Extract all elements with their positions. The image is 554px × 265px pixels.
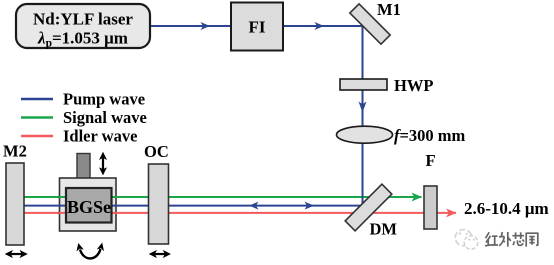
svg-text:Signal wave: Signal wave	[63, 108, 147, 127]
svg-text:OC: OC	[144, 142, 169, 161]
svg-text:Nd:YLF laser: Nd:YLF laser	[33, 10, 133, 29]
svg-text:HWP: HWP	[394, 76, 433, 95]
svg-text:f=300 mm: f=300 mm	[394, 126, 466, 145]
svg-text:F: F	[425, 151, 435, 170]
svg-text:M2: M2	[3, 142, 27, 161]
svg-text:M1: M1	[377, 0, 401, 19]
svg-text:Idler wave: Idler wave	[63, 127, 137, 146]
svg-text:2.6-10.4 μm: 2.6-10.4 μm	[464, 199, 549, 218]
svg-text:Pump wave: Pump wave	[63, 90, 145, 109]
svg-text:FI: FI	[249, 18, 266, 37]
svg-text:DM: DM	[370, 220, 398, 239]
svg-text:BGSe: BGSe	[67, 197, 111, 217]
